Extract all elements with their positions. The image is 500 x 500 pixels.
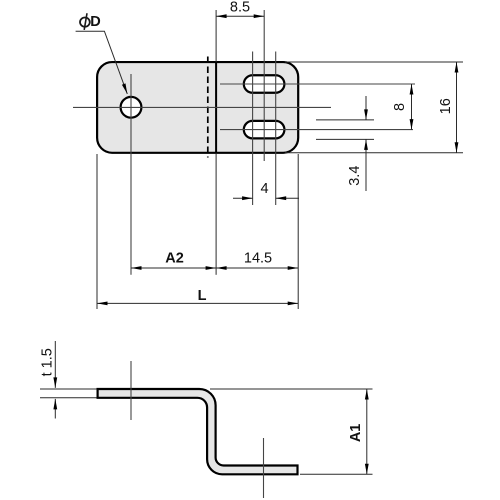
- svg-text:16: 16: [438, 98, 454, 114]
- svg-text:A2: A2: [165, 250, 184, 266]
- svg-text:3.4: 3.4: [347, 166, 363, 186]
- svg-text:L: L: [198, 288, 207, 304]
- svg-text:t 1.5: t 1.5: [40, 348, 56, 376]
- svg-text:A1: A1: [348, 424, 364, 443]
- svg-text:14.5: 14.5: [244, 250, 272, 266]
- svg-text:8.5: 8.5: [230, 0, 250, 15]
- svg-text:8: 8: [392, 103, 408, 111]
- svg-text:4: 4: [260, 181, 268, 197]
- svg-text:D: D: [90, 14, 100, 30]
